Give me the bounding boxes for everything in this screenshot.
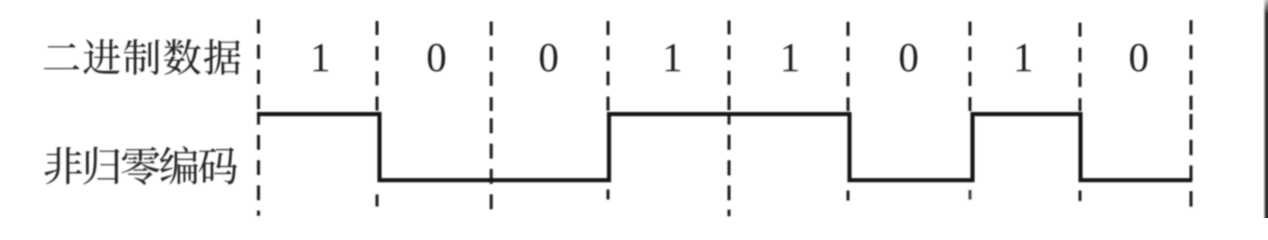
bit boundary dashed line 7 (above waveform) xyxy=(968,22,971,112)
NRZ waveform xyxy=(257,114,1192,180)
bit boundary dashed line 7 (below waveform) xyxy=(968,190,971,200)
bit boundary dashed line 8 (above waveform) xyxy=(1078,23,1081,111)
svg-text:0: 0 xyxy=(538,34,559,80)
label: 二进制数据 (binary data) xyxy=(44,39,241,75)
bit boundary dashed line 9 (above waveform) xyxy=(1189,20,1192,110)
bit boundary dashed line 8 (below waveform) xyxy=(1078,191,1081,202)
label: 非归零编码 (NRZ encoding) xyxy=(44,146,237,184)
bit boundary dashed line 6 (below waveform) xyxy=(846,191,849,201)
bit boundary dashed line 4 (below waveform) xyxy=(606,190,609,200)
bit boundary dashed line 4 (above waveform) xyxy=(606,21,609,111)
svg-text:0: 0 xyxy=(426,34,447,80)
page edge shadow (right) xyxy=(1262,0,1268,218)
svg-text:1: 1 xyxy=(1013,34,1034,80)
svg-text:1: 1 xyxy=(310,34,331,80)
bit boundary dashed line 2 (below waveform) xyxy=(375,195,378,207)
svg-text:0: 0 xyxy=(1129,34,1150,80)
svg-text:1: 1 xyxy=(780,34,801,80)
page edge shadow top fade xyxy=(1262,0,1268,14)
bit boundary dashed line 5 (above waveform) xyxy=(727,20,730,110)
bit boundary dashed line 6 (above waveform) xyxy=(846,22,849,111)
bit boundary dashed line 5 (below waveform) xyxy=(727,112,730,216)
bit boundary dashed line 1 (below waveform) xyxy=(257,112,260,216)
bit boundary dashed line 3 (above waveform) xyxy=(490,22,493,112)
bit boundary dashed line 9 (below waveform) xyxy=(1189,114,1192,207)
svg-text:0: 0 xyxy=(898,34,919,80)
bit boundary dashed line 2 (above waveform) xyxy=(375,21,378,111)
bit boundary dashed line 3 (below waveform) xyxy=(490,118,493,209)
bit boundary dashed line 1 (above waveform) xyxy=(257,20,260,110)
svg-text:1: 1 xyxy=(662,34,683,80)
